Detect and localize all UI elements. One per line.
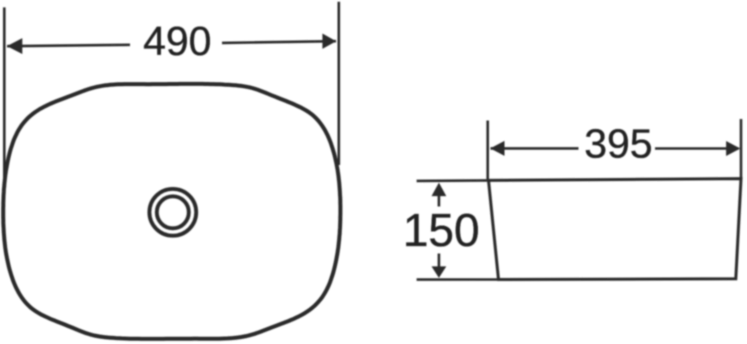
svg-text:490: 490 — [143, 18, 211, 64]
svg-text:395: 395 — [584, 121, 652, 167]
svg-text:150: 150 — [403, 204, 480, 256]
